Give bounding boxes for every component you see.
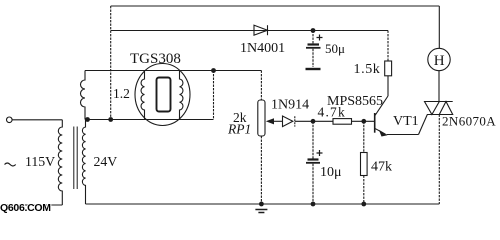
wire primary bottom to left [3, 204, 62, 206]
node dot 47k junction [361, 119, 366, 124]
node dot 47k bottom [361, 202, 366, 207]
svg-text:TGS308: TGS308 [130, 51, 181, 67]
diode 1N4001 [254, 25, 268, 35]
sensor internal heater coil left [141, 71, 144, 120]
transformer T1 primary winding 115V [58, 120, 62, 205]
wire sensor node to RP1 [214, 70, 262, 72]
svg-text:1N914: 1N914 [271, 98, 309, 113]
svg-text:1N4001: 1N4001 [240, 41, 285, 56]
resistor 1.5k [385, 31, 392, 97]
node dot 10u bottom [311, 202, 316, 207]
heater lamp H [428, 48, 450, 70]
sensor internal sensing element rectangle [157, 78, 171, 112]
wire left vertical from rails to secondary node [110, 6, 112, 120]
wire terminal to primary [12, 119, 62, 121]
capacitor C 50u polarized [306, 31, 323, 68]
transformer core [74, 127, 77, 190]
node dot 10u junction [311, 119, 316, 124]
svg-text:MPS8565: MPS8565 [327, 94, 383, 109]
ground symbol bottom [255, 210, 267, 213]
svg-text:24V: 24V [94, 154, 118, 169]
svg-text:1.2: 1.2 [113, 86, 130, 101]
svg-text:10μ: 10μ [320, 165, 342, 180]
resistor 4.7k [333, 119, 352, 125]
resistor 47k [361, 121, 368, 204]
node dot at sensor top right [211, 68, 216, 73]
triac 2N6070A [425, 102, 453, 115]
node dot RP1 ground [259, 202, 264, 207]
wire down to RP1 top [260, 71, 262, 101]
svg-text:RP1: RP1 [227, 122, 251, 137]
wire heater to triac [438, 71, 440, 102]
wire bottom rail [86, 203, 440, 205]
transformer secondary winding 24V [82, 120, 85, 205]
capacitor 10u polarized [306, 121, 323, 204]
svg-text:50μ: 50μ [325, 41, 345, 56]
wire triac gate slant [419, 115, 428, 135]
label ~ AC [5, 163, 16, 166]
transistor VT1 MPS8565 [375, 96, 388, 137]
potentiometer RP1 wiper arrow [266, 118, 283, 124]
ground bar under 50u [306, 68, 321, 70]
node junction cap 50u on DC rail [311, 28, 316, 33]
wire emitter to triac gate [387, 134, 419, 136]
input terminal circle [7, 117, 13, 123]
svg-text:1.5k: 1.5k [354, 62, 381, 77]
wire triac anode down to bottom rail [438, 115, 440, 205]
svg-text:VT1: VT1 [393, 114, 419, 129]
wire RP1 bottom to rail [260, 136, 262, 204]
winding 1.2 (heater supply winding) [81, 71, 86, 120]
wire sensor right vertical [213, 71, 215, 120]
potentiometer RP1 2k body [258, 100, 265, 136]
wire diode to 4.7k [295, 120, 333, 122]
wire 4.7k to base [352, 120, 375, 122]
svg-text:115V: 115V [25, 154, 55, 169]
svg-text:H: H [434, 53, 445, 69]
watermark Q606.COM [0, 202, 51, 214]
sensor TGS308 circle [135, 64, 190, 126]
wire top rail [111, 5, 440, 7]
sensor internal heater coil right [180, 71, 183, 120]
wire sensor bottom chord [85, 119, 214, 121]
svg-text:47k: 47k [371, 160, 392, 175]
wire sensor top chord [85, 70, 214, 72]
wire right vertical top rail to heater [438, 6, 440, 49]
node dot secondary top at left vertical [108, 117, 113, 122]
wire second rail (DC rail after rectifier) [111, 30, 388, 32]
svg-text:2N6070A: 2N6070A [442, 114, 496, 129]
diode 1N914 [283, 116, 295, 127]
node dot secondary top left [85, 117, 90, 122]
